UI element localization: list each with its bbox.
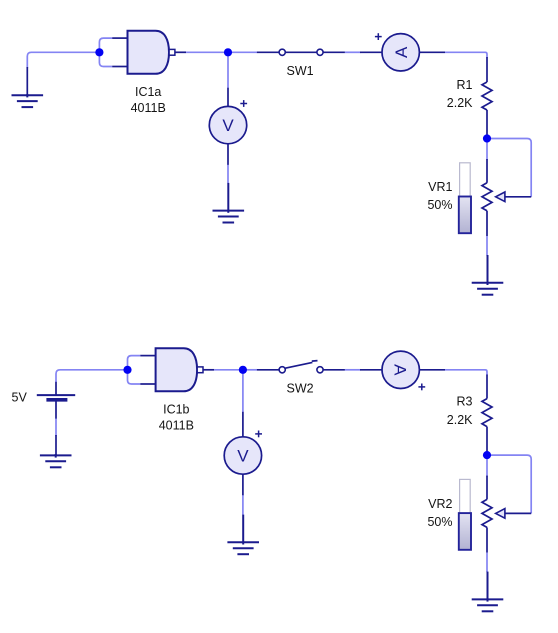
ground (battery): [40, 454, 72, 467]
wire junction to pot: [486, 459, 488, 477]
potentiometer VR1 slider handle: [459, 197, 471, 234]
NAND gate IC1b 4011B: [140, 356, 155, 384]
ammeter A1: [382, 34, 419, 71]
wire switch to ammeter: [345, 369, 361, 371]
resistor bottom pin: [486, 110, 488, 137]
potentiometer VR2 element: [482, 499, 531, 527]
wire input loop of IC1b: [128, 356, 141, 384]
pot bottom pin: [486, 211, 488, 236]
pot top pin: [486, 476, 488, 500]
wire to resistor: [445, 52, 487, 58]
wire battery to gate input: [56, 370, 124, 382]
node meter tap: [239, 366, 247, 374]
svg-text:50%: 50%: [427, 515, 452, 529]
ground (pot): [472, 572, 504, 612]
svg-text:V: V: [222, 116, 234, 135]
voltmeter V2: [224, 437, 261, 474]
svg-text:V: V: [237, 447, 249, 466]
resistor R1 2.2K: [482, 82, 492, 110]
ammeter right pin: [419, 51, 445, 53]
node meter tap: [224, 48, 232, 56]
ammeter A2: [382, 351, 419, 388]
wire input loop of IC1a: [99, 38, 112, 66]
svg-text:R1: R1: [457, 78, 473, 92]
ground (pot): [472, 255, 504, 295]
node input junction: [95, 48, 103, 56]
ammeter left pin: [360, 51, 382, 53]
wire junction to wiper: [491, 139, 531, 197]
voltmeter pin: [227, 88, 229, 107]
resistor top pin: [486, 375, 488, 399]
wire to voltmeter: [227, 52, 229, 88]
potentiometer VR2 slider track: [460, 479, 471, 549]
resistor bottom pin: [486, 427, 488, 454]
top-left ground pin: [26, 67, 28, 95]
switch SW2: [257, 361, 345, 370]
voltmeter bottom pin: [242, 474, 244, 495]
node resistor/pot junction: [483, 451, 491, 459]
potentiometer VR1 slider track: [460, 163, 471, 233]
svg-text:4011B: 4011B: [131, 101, 166, 115]
wire switch to ammeter: [345, 51, 361, 53]
NAND gate IC1a 4011B: [112, 38, 127, 66]
pot top pin: [486, 159, 488, 183]
svg-text:2.2K: 2.2K: [447, 96, 473, 110]
wire junction to pot: [486, 143, 488, 161]
svg-text:4011B: 4011B: [159, 419, 194, 433]
wire to voltmeter: [242, 370, 244, 412]
potentiometer VR1 element: [482, 183, 531, 211]
wire voltmeter to ground: [242, 495, 244, 515]
voltmeter bottom pin: [227, 144, 229, 165]
svg-text:5V: 5V: [12, 390, 28, 404]
wire: [186, 51, 228, 53]
svg-text:VR1: VR1: [428, 180, 452, 194]
ground (gate input): [12, 94, 44, 107]
svg-text:R3: R3: [457, 395, 473, 409]
wire pot to ground: [486, 553, 488, 573]
svg-text:SW1: SW1: [287, 64, 314, 78]
svg-text:IC1b: IC1b: [163, 403, 189, 417]
wire to resistor: [445, 370, 487, 376]
pot bottom pin: [486, 527, 488, 552]
wire node to switch: [228, 51, 257, 53]
ammeter right pin: [419, 369, 445, 371]
svg-text:50%: 50%: [427, 198, 452, 212]
wire: [214, 369, 243, 371]
ground (voltmeter): [213, 183, 245, 223]
resistor top pin: [486, 57, 488, 82]
wire junction to wiper: [491, 455, 531, 513]
svg-text:A: A: [391, 364, 410, 376]
voltmeter pin: [242, 412, 244, 437]
resistor R3 2.2K: [482, 399, 492, 427]
node resistor/pot junction: [483, 134, 491, 142]
svg-text:IC1a: IC1a: [135, 85, 161, 99]
wire input to ground (top): [27, 52, 96, 68]
switch SW1: [257, 51, 345, 53]
node input junction: [123, 366, 131, 374]
svg-text:A: A: [392, 46, 411, 58]
potentiometer VR2 slider handle: [459, 513, 471, 550]
wire node to switch: [243, 369, 257, 371]
wire battery to ground: [55, 419, 57, 437]
ground (voltmeter): [227, 515, 259, 555]
battery BT1 5V: [37, 381, 75, 419]
voltmeter V1: [209, 106, 246, 143]
svg-text:SW2: SW2: [287, 382, 314, 396]
svg-text:2.2K: 2.2K: [447, 413, 473, 427]
wire voltmeter to ground: [227, 165, 229, 183]
ammeter left pin: [360, 369, 382, 371]
battery ground pin: [55, 435, 57, 456]
wire pot to ground: [486, 236, 488, 256]
svg-text:VR2: VR2: [428, 497, 452, 511]
